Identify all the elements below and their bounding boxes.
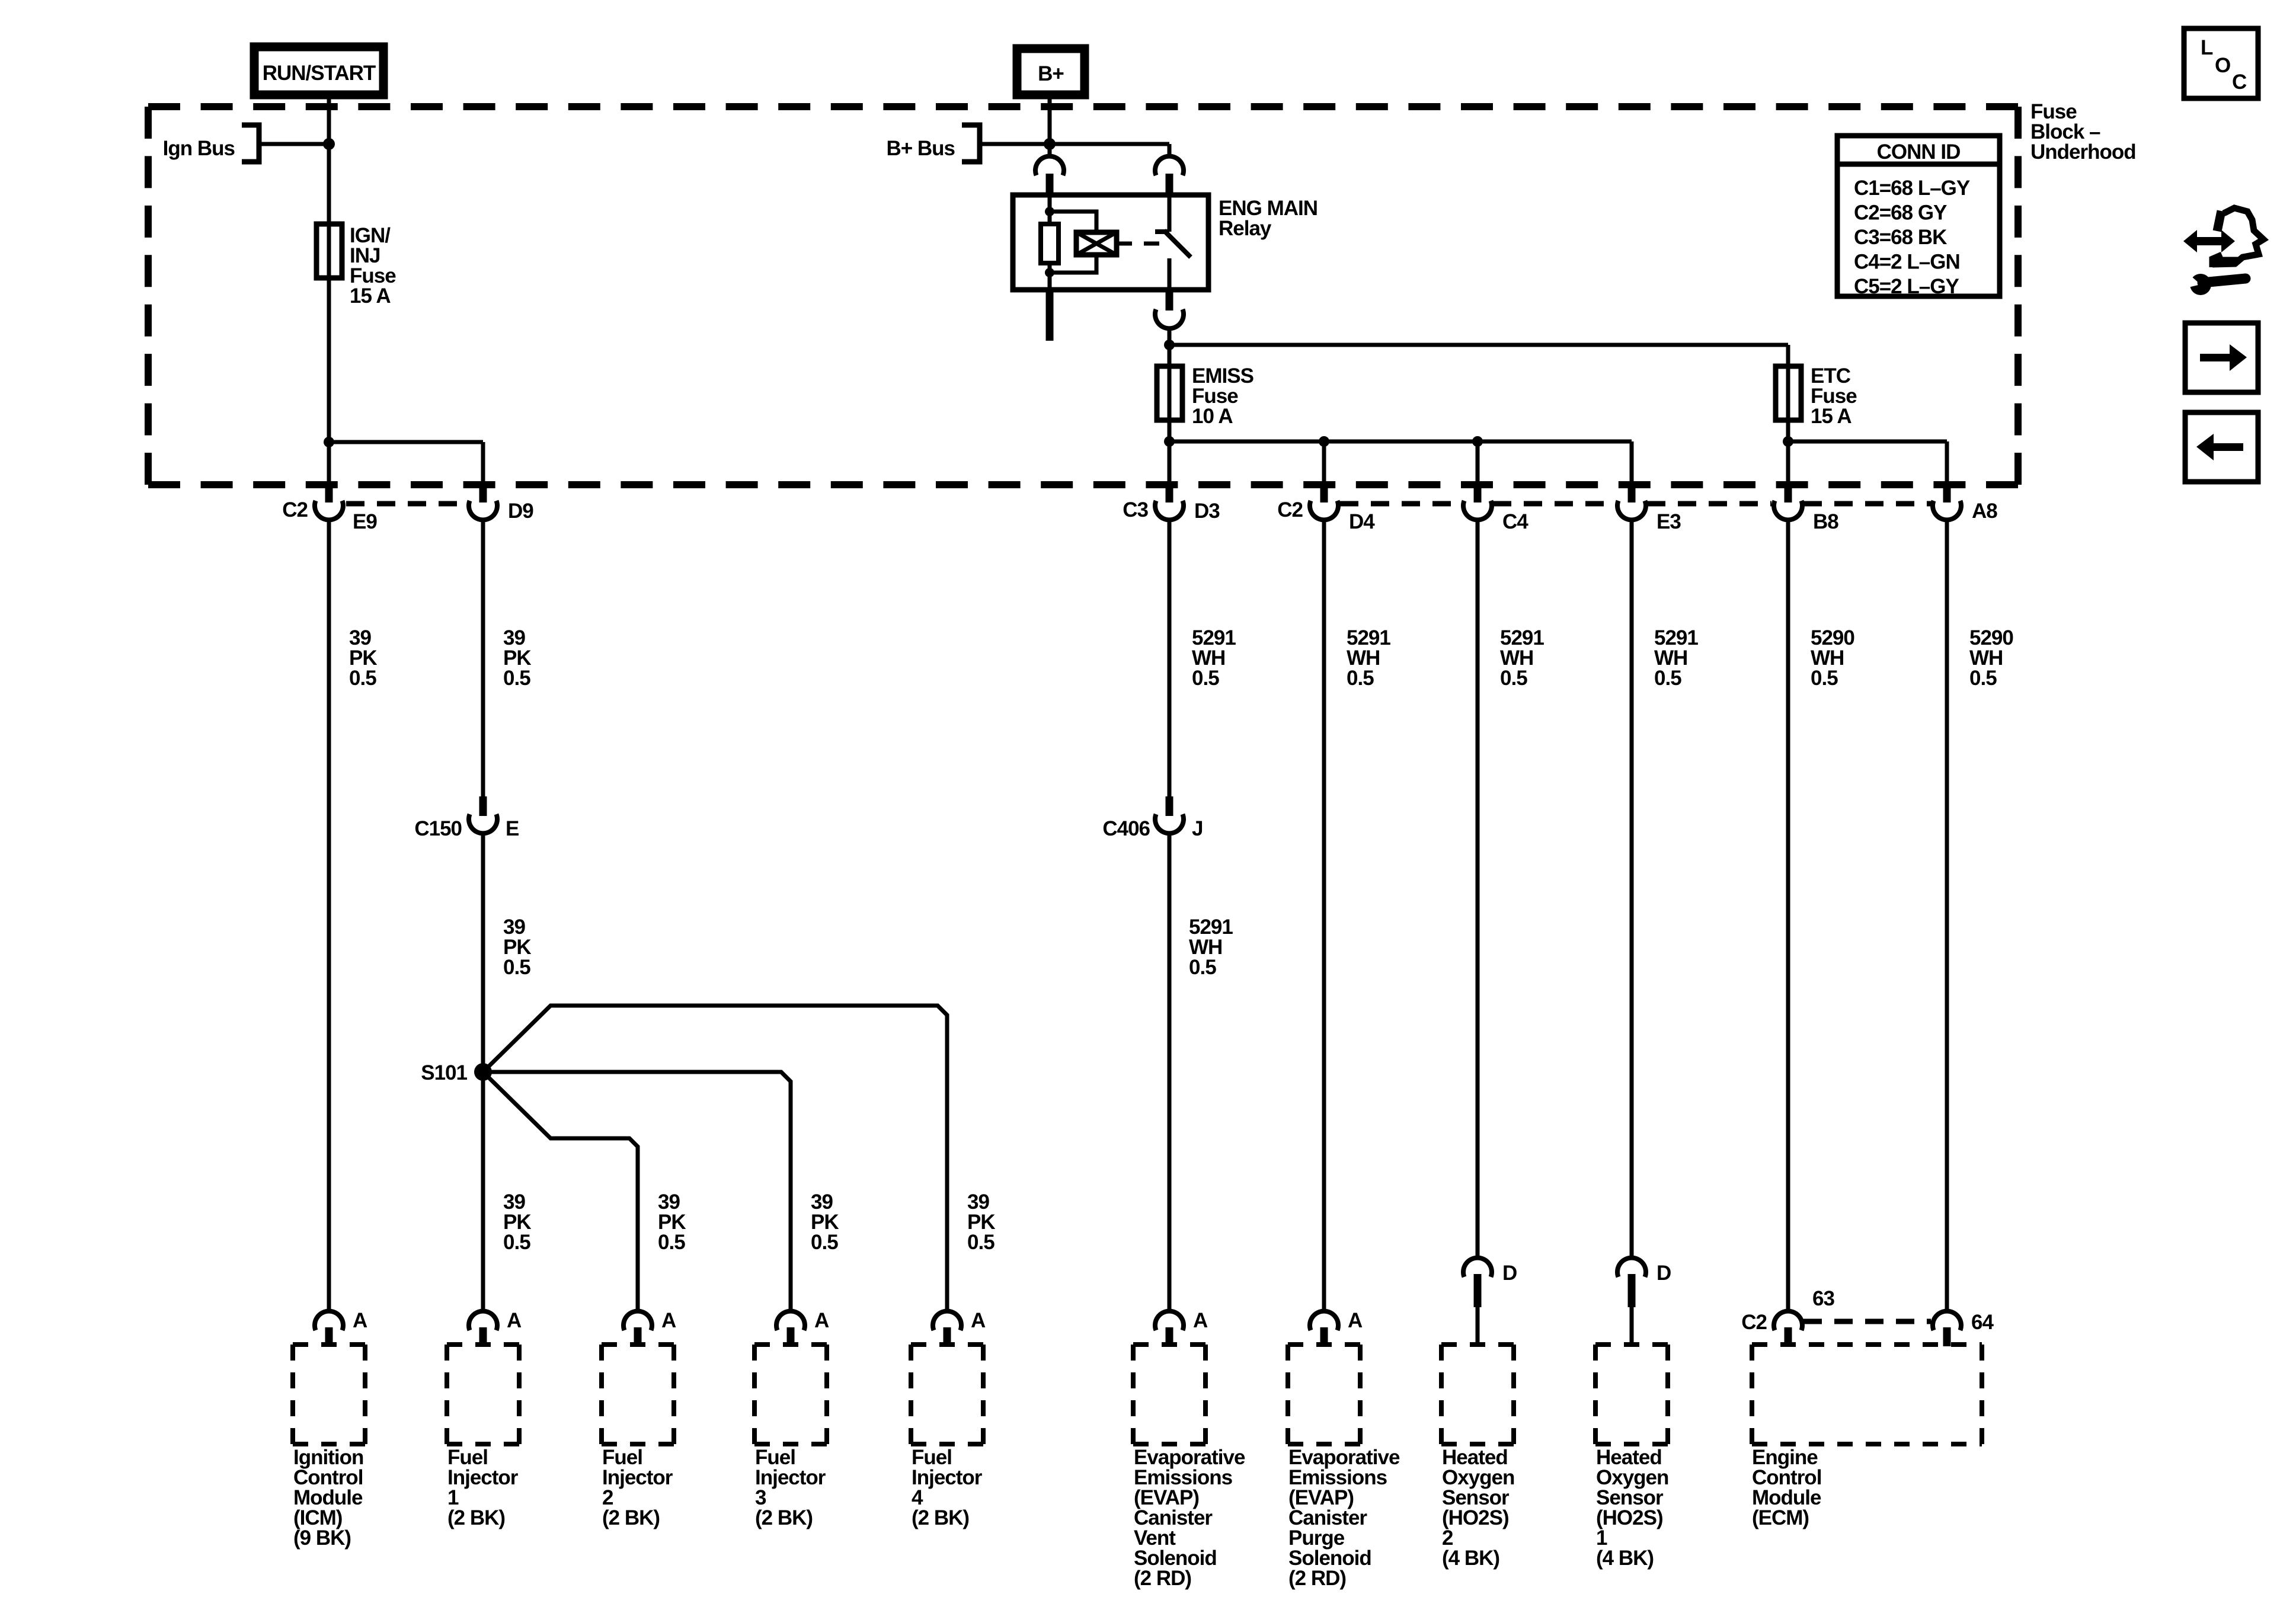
svg-text:C2: C2 [1277,498,1303,521]
svg-text:63: 63 [1812,1287,1834,1310]
svg-text:(2 RD): (2 RD) [1134,1567,1191,1590]
svg-text:A8: A8 [1972,500,1997,523]
svg-text:B8: B8 [1813,510,1838,533]
svg-text:L: L [2201,36,2213,59]
svg-text:A: A [661,1309,676,1332]
svg-text:B+ Bus: B+ Bus [886,137,955,160]
svg-text:Ign Bus: Ign Bus [163,137,235,160]
svg-text:(2 BK): (2 BK) [912,1506,969,1529]
svg-text:15 A: 15 A [1811,405,1851,428]
svg-text:E9: E9 [353,510,377,533]
svg-text:(ECM): (ECM) [1752,1506,1809,1529]
svg-text:0.5: 0.5 [503,667,530,690]
svg-text:(2 RD): (2 RD) [1288,1567,1346,1590]
svg-text:(4 BK): (4 BK) [1442,1547,1499,1570]
svg-text:0.5: 0.5 [1969,667,1997,690]
svg-text:A: A [814,1309,829,1332]
svg-text:10 A: 10 A [1192,405,1233,428]
svg-text:C2: C2 [1741,1311,1767,1334]
svg-text:A: A [507,1309,522,1332]
svg-text:(9 BK): (9 BK) [293,1526,351,1550]
svg-text:C5=2 L–GY: C5=2 L–GY [1854,275,1959,298]
svg-text:(2 BK): (2 BK) [755,1506,813,1529]
svg-text:(4 BK): (4 BK) [1596,1547,1654,1570]
svg-text:0.5: 0.5 [503,1231,530,1254]
svg-text:A: A [971,1309,986,1332]
svg-text:D9: D9 [508,500,533,523]
svg-text:D4: D4 [1349,510,1375,533]
svg-text:B+: B+ [1038,62,1064,85]
svg-text:C2: C2 [282,498,308,521]
svg-text:D3: D3 [1194,500,1220,523]
svg-text:D: D [1657,1262,1671,1285]
svg-text:0.5: 0.5 [967,1231,994,1254]
svg-text:J: J [1192,817,1203,840]
svg-text:15 A: 15 A [350,284,391,308]
svg-text:C4: C4 [1502,510,1528,533]
svg-text:0.5: 0.5 [1500,667,1527,690]
svg-text:RUN/START: RUN/START [263,62,376,85]
svg-text:(2 BK): (2 BK) [602,1506,660,1529]
svg-text:E: E [506,817,519,840]
svg-text:0.5: 0.5 [503,956,530,979]
svg-text:0.5: 0.5 [811,1231,838,1254]
svg-text:0.5: 0.5 [1654,667,1681,690]
svg-text:Relay: Relay [1219,217,1272,240]
svg-text:C: C [2232,71,2247,94]
svg-text:C4=2 L–GN: C4=2 L–GN [1854,251,1960,274]
svg-text:E3: E3 [1657,510,1681,533]
svg-text:O: O [2215,54,2230,77]
svg-text:(2 BK): (2 BK) [447,1506,505,1529]
svg-text:C406: C406 [1102,817,1150,840]
svg-text:64: 64 [1971,1311,1994,1334]
svg-text:C1=68 L–GY: C1=68 L–GY [1854,177,1970,200]
svg-text:C3: C3 [1123,498,1148,521]
svg-text:0.5: 0.5 [658,1231,685,1254]
svg-text:0.5: 0.5 [1189,956,1216,979]
svg-text:C3=68 BK: C3=68 BK [1854,226,1947,249]
svg-text:0.5: 0.5 [349,667,376,690]
svg-text:0.5: 0.5 [1811,667,1838,690]
svg-text:A: A [353,1309,367,1332]
svg-text:C150: C150 [414,817,462,840]
svg-text:Underhood: Underhood [2030,140,2136,164]
svg-text:S101: S101 [421,1061,467,1084]
svg-text:0.5: 0.5 [1192,667,1219,690]
svg-text:D: D [1502,1262,1517,1285]
svg-text:0.5: 0.5 [1347,667,1374,690]
svg-text:CONN ID: CONN ID [1877,140,1961,164]
svg-text:A: A [1193,1309,1208,1332]
svg-text:C2=68 GY: C2=68 GY [1854,201,1947,225]
svg-text:A: A [1348,1309,1363,1332]
